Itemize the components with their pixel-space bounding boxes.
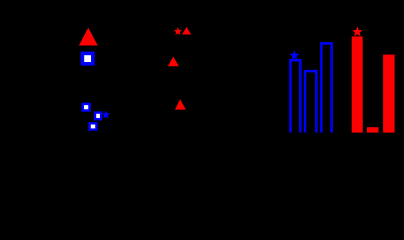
blue star above bar 1 [291, 52, 297, 58]
red triangle marker (middle column, middle) [168, 57, 179, 67]
small blue star marker (lower-left cluster) [103, 112, 109, 117]
blue outlined bar 2 (right chart) [305, 71, 316, 132]
red triangle marker (middle column, top pair) [182, 27, 191, 35]
large blue square marker with white face (left scatter) [82, 53, 92, 63]
blue outlined bar 3 (right chart) [321, 43, 331, 132]
large red triangle marker (left scatter) [79, 28, 98, 46]
red star marker (middle column, top pair) [175, 29, 180, 34]
small blue square marker A (lower-left cluster) [83, 104, 90, 111]
red filled bar 1 (right chart) [352, 36, 363, 132]
red filled bar 3 (right chart) [383, 55, 395, 133]
small blue square marker B (lower-left cluster) [95, 113, 101, 120]
small blue square marker C (lower-left cluster) [90, 123, 97, 129]
red filled short bar 2 (right chart) [367, 127, 379, 132]
red star above red bar 1 [354, 28, 361, 35]
red triangle marker (middle column, lower) [175, 99, 186, 109]
blue outlined bar 1 (right chart) [290, 60, 300, 132]
